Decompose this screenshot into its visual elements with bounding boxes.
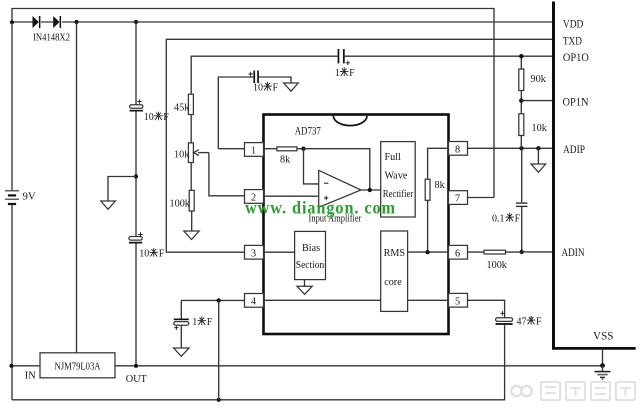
node diode output [74, 20, 78, 24]
label Full Wave Rectifier [383, 152, 414, 200]
node OP1N [519, 98, 523, 102]
node pin6/8k [425, 250, 429, 254]
wire cap chain upper [135, 22, 137, 105]
block Full Wave Rectifier [381, 142, 416, 217]
ground G2 [101, 201, 116, 209]
wire ADIP gnd spur [537, 148, 539, 164]
node bottom rail pin4 [217, 398, 221, 402]
wire wiper to pin2 [209, 153, 245, 196]
svg-text:Section: Section [296, 260, 325, 271]
wire pin3 to bias [264, 251, 295, 253]
node OP1O/90k [519, 54, 523, 58]
svg-text:5: 5 [455, 296, 460, 307]
pin 6 [449, 245, 468, 259]
label C4 10uF [253, 82, 279, 93]
svg-text:IN: IN [25, 371, 36, 382]
svg-text:Bias: Bias [302, 243, 320, 254]
wire bottom rail [12, 399, 505, 401]
ground G4 [297, 286, 312, 294]
svg-text:10: 10 [253, 82, 263, 93]
wire IN to regulator [12, 365, 41, 367]
capacitor C2 10uF [129, 233, 143, 244]
svg-text:7: 7 [455, 194, 460, 205]
node op-amp output [368, 188, 372, 192]
node pin4 [217, 298, 221, 302]
svg-text:8k: 8k [280, 155, 291, 166]
wire ADIN to bar [522, 251, 553, 253]
pin 3 [245, 245, 264, 259]
wire pin6 to 100k [468, 251, 485, 253]
label C3 1uF [335, 68, 355, 79]
label C5 0.1uF [492, 213, 521, 224]
svg-text:10k: 10k [174, 149, 190, 160]
resistor R8 100k [484, 250, 506, 254]
pin 5 [449, 293, 468, 307]
pin 7 [449, 191, 468, 205]
svg-text:3: 3 [251, 248, 256, 259]
svg-text:47: 47 [517, 316, 527, 327]
block RMS core [381, 231, 408, 311]
ground G3 [184, 231, 199, 240]
diode D2 [53, 16, 61, 28]
wire pin4 left [181, 299, 244, 301]
resistor R7 10k [519, 114, 524, 136]
capacitor C1 10uF [130, 100, 143, 112]
svg-text:TXD: TXD [563, 36, 582, 48]
wire 8k to node [297, 148, 304, 150]
potentiometer R2 10k [188, 143, 209, 163]
wire 100k to gnd [191, 211, 193, 231]
wire 8k input [264, 148, 277, 150]
svg-text:OP1N: OP1N [563, 96, 589, 108]
wire pin4-pin5 through [264, 299, 449, 301]
wire bias gnd [304, 280, 306, 287]
diode D1 [33, 16, 41, 28]
svg-text:F: F [207, 317, 213, 328]
capacitor C4 10uF [249, 71, 259, 83]
wire ADIP to cap [521, 148, 523, 202]
svg-text:VSS: VSS [593, 331, 614, 343]
wire 8k2 top to pin8 [428, 148, 449, 179]
wire OUT rail [115, 365, 603, 367]
wire pin6 [408, 251, 449, 253]
wire cap to gnd [180, 325, 182, 348]
wire cap chain middle [135, 112, 137, 237]
svg-text:10: 10 [139, 249, 149, 260]
svg-text:IN4148X2: IN4148X2 [33, 32, 70, 43]
watermark wukong text [541, 382, 635, 400]
wire pin4 to cap [180, 300, 182, 318]
svg-text:F: F [273, 82, 279, 93]
ground G1 [284, 83, 299, 91]
svg-text:10: 10 [144, 112, 154, 123]
svg-text:AD737: AD737 [295, 126, 321, 138]
svg-text:9V: 9V [23, 191, 36, 203]
label RMS core [384, 248, 406, 288]
svg-text:VDD: VDD [563, 19, 584, 31]
pin 2 [245, 190, 264, 204]
block Bias Section [295, 231, 326, 279]
earth ground [595, 366, 611, 381]
label C7 1uF [192, 317, 212, 328]
chip U1 AD737 [264, 115, 449, 335]
svg-text:10k: 10k [532, 123, 548, 134]
svg-text:core: core [384, 277, 402, 288]
wire 45k to pot [190, 115, 192, 143]
wire cap to gnd [259, 77, 291, 83]
svg-text:1: 1 [335, 68, 340, 79]
svg-text:1: 1 [251, 146, 256, 157]
watermark wukong logo [511, 386, 531, 396]
label C2 10uF [139, 248, 165, 259]
op-amp A1 [319, 170, 361, 207]
node ADIP/10k/cap [519, 146, 523, 150]
pin 4 [245, 294, 264, 308]
wire pin8 to ADIP [468, 147, 553, 149]
wire VSS drop [602, 350, 604, 366]
svg-text:0.1: 0.1 [492, 213, 505, 224]
wire OP1O net right [345, 55, 553, 57]
resistor R3 100k [189, 190, 194, 211]
ground G6 [174, 348, 189, 356]
resistor R6 90k [519, 69, 524, 91]
capacitor C6 47uF [496, 311, 513, 325]
connector bar vertical [552, 2, 555, 349]
svg-text:OUT: OUT [126, 374, 148, 385]
capacitor C5 0.1uF [516, 203, 528, 206]
label Bias Section [296, 243, 325, 271]
wire cap to ADIN [521, 207, 523, 252]
resistor R4 8k [277, 147, 297, 151]
node VSS/OUT [600, 363, 605, 368]
wire 100k to ADIN [506, 251, 522, 253]
wire pot to 100k [190, 163, 192, 191]
svg-text:F: F [515, 213, 521, 224]
wire OP1O net left [191, 56, 337, 94]
pin 1 [245, 143, 264, 157]
svg-text:1: 1 [192, 317, 197, 328]
label C1 10uF [144, 112, 170, 123]
svg-text:4: 4 [251, 297, 256, 308]
wire VDD rail [12, 21, 553, 23]
wire 8k2 bottom [427, 200, 429, 252]
wire gnd spur left [108, 177, 136, 202]
svg-text:100k: 100k [487, 260, 508, 271]
capacitor C3 1uF [338, 49, 350, 65]
wire OP1N to bar [521, 100, 552, 102]
wire top loop battery+ to pin7 [12, 9, 494, 198]
svg-text:F: F [536, 316, 542, 327]
svg-text:F: F [159, 249, 165, 260]
wire inverting input [304, 149, 319, 184]
wire 10k to ADIP [520, 136, 522, 149]
svg-text:NJM79L03A: NJM79L03A [55, 361, 102, 372]
svg-text:ADIP: ADIP [563, 144, 585, 156]
node IN [9, 364, 13, 368]
node battery+ [10, 20, 14, 24]
svg-text:45k: 45k [174, 103, 190, 114]
wire battery top [11, 22, 13, 190]
regulator U2 NJM79L03A [40, 353, 115, 378]
svg-text:6: 6 [455, 248, 460, 259]
svg-text:90k: 90k [531, 74, 547, 85]
wire pin5 to cap [468, 300, 505, 318]
resistor R1 45k [188, 94, 193, 114]
wire pin7 to riser [468, 197, 495, 199]
svg-text:www. diangon. com: www. diangon. com [245, 198, 396, 218]
node ADIP/gnd [536, 146, 540, 150]
wire pin1 cap branch [218, 77, 253, 149]
node ADIN [520, 250, 524, 254]
node VDD/cap chain [134, 20, 138, 24]
wire 90k to OP1N [520, 91, 522, 114]
wire non-inverting input [264, 195, 319, 197]
wire gnd-mid rail x76.5 [76, 22, 78, 353]
connector bar horizontal [552, 347, 636, 350]
node chain/gnd spur [134, 174, 138, 178]
svg-text:ADIN: ADIN [562, 247, 585, 259]
svg-text:F: F [349, 68, 355, 79]
wire OP1O to 90k [520, 56, 522, 69]
wire cap to bottom rail [504, 325, 506, 400]
svg-text:Wave: Wave [385, 171, 408, 182]
svg-text:OP1O: OP1O [563, 52, 589, 64]
ground G5 [531, 164, 546, 172]
wire cap chain lower [135, 244, 137, 366]
node feedback [301, 147, 305, 151]
svg-text:8k: 8k [435, 180, 446, 191]
wire pin1 left [218, 148, 244, 150]
svg-text:Full: Full [385, 152, 402, 163]
label C6 47uF [517, 316, 543, 327]
battery BT1 9V [5, 191, 19, 204]
svg-text:100k: 100k [170, 198, 191, 209]
node OUT/cap chain [134, 364, 138, 368]
wire TXD net [166, 39, 552, 252]
svg-text:RMS: RMS [384, 248, 406, 259]
wire battery bottom [11, 205, 13, 400]
wire feedback top [304, 149, 370, 190]
chip notch [333, 116, 367, 126]
pin 8 [449, 142, 468, 156]
wire pin4 to bottom rail [218, 300, 220, 399]
resistor R5 8k [425, 179, 430, 200]
svg-text:8: 8 [455, 145, 460, 156]
capacitor C7 1uF [174, 319, 189, 330]
wire op-amp output [361, 189, 381, 191]
